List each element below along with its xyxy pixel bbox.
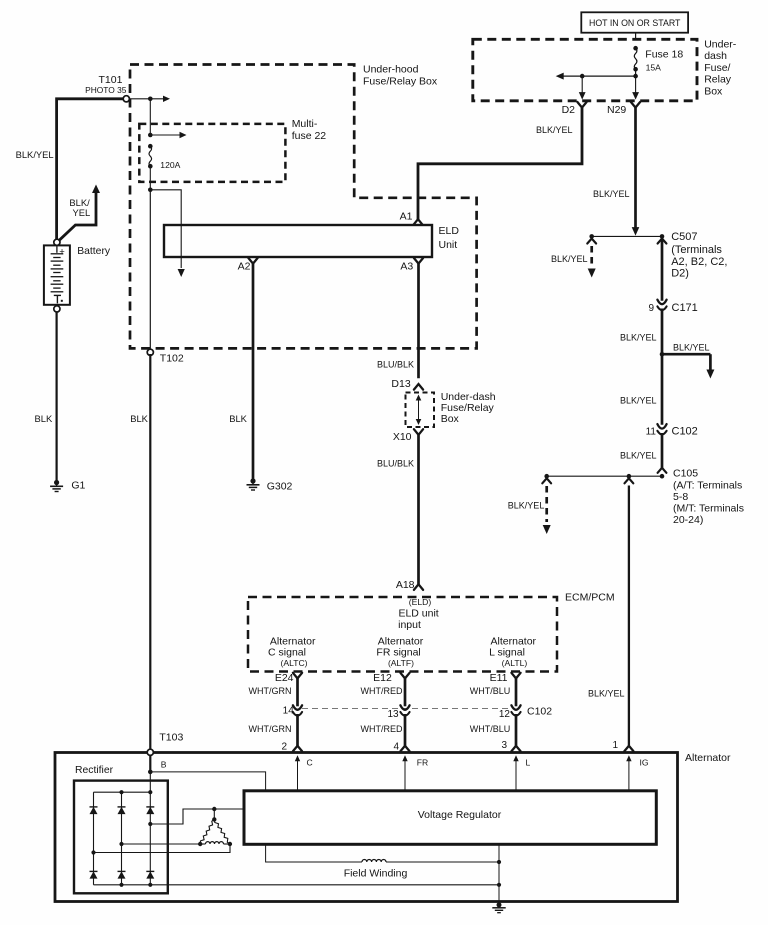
svg-text:Fuse 18: Fuse 18 — [645, 48, 683, 60]
svg-text:3: 3 — [501, 740, 507, 751]
svg-text:BLU/BLK: BLU/BLK — [377, 459, 414, 469]
svg-text:C105: C105 — [673, 468, 698, 480]
svg-text:A2, B2, C2,: A2, B2, C2, — [671, 256, 727, 268]
svg-text:BLK: BLK — [130, 413, 148, 424]
svg-text:1: 1 — [612, 740, 618, 751]
svg-text:FR: FR — [417, 758, 428, 768]
svg-text:11: 11 — [646, 427, 657, 438]
svg-text:BLK/YEL: BLK/YEL — [588, 689, 625, 699]
svg-text:N29: N29 — [607, 104, 626, 116]
svg-text:120A: 120A — [160, 160, 180, 170]
svg-text:A18: A18 — [396, 579, 415, 591]
svg-text:HOT IN ON OR START: HOT IN ON OR START — [589, 18, 681, 28]
svg-text:Box: Box — [441, 413, 460, 425]
svg-text:G302: G302 — [267, 481, 293, 493]
svg-text:13: 13 — [387, 709, 399, 720]
svg-text:T102: T102 — [160, 353, 184, 365]
svg-text:BLK/YEL: BLK/YEL — [620, 450, 657, 460]
svg-text:9: 9 — [648, 303, 654, 314]
svg-text:D2: D2 — [562, 104, 576, 116]
svg-text:15A: 15A — [646, 63, 662, 73]
svg-text:dash: dash — [704, 50, 727, 62]
svg-text:(ELD): (ELD) — [409, 597, 432, 607]
svg-text:BLU/BLK: BLU/BLK — [377, 360, 414, 370]
svg-text:ECM/PCM: ECM/PCM — [565, 592, 615, 604]
svg-text:(ALTL): (ALTL) — [502, 658, 528, 668]
svg-text:(ALTC): (ALTC) — [280, 658, 307, 668]
svg-text:(ALTF): (ALTF) — [388, 658, 414, 668]
svg-text:BLK: BLK — [35, 413, 53, 424]
svg-text:Multi-: Multi- — [292, 118, 318, 130]
svg-text:(Terminals: (Terminals — [671, 244, 722, 256]
svg-text:5-8: 5-8 — [673, 491, 688, 503]
svg-text:Voltage Regulator: Voltage Regulator — [418, 809, 502, 821]
svg-text:Fuse/Relay: Fuse/Relay — [441, 402, 495, 414]
svg-text:B: B — [161, 759, 167, 769]
svg-text:E12: E12 — [373, 672, 392, 684]
svg-text:Relay: Relay — [704, 74, 732, 86]
svg-text:BLK/YEL: BLK/YEL — [508, 501, 545, 511]
svg-text:(M/T: Terminals: (M/T: Terminals — [673, 502, 744, 514]
svg-text:WHT/BLU: WHT/BLU — [470, 724, 511, 734]
svg-text:Unit: Unit — [439, 239, 458, 251]
svg-text:ELD unit: ELD unit — [398, 608, 438, 620]
svg-text:BLK/YEL: BLK/YEL — [673, 343, 710, 353]
svg-text:Fuse/Relay Box: Fuse/Relay Box — [363, 75, 438, 87]
svg-text:BLK/YEL: BLK/YEL — [16, 149, 54, 160]
svg-text:C507: C507 — [671, 231, 697, 243]
svg-text:C signal: C signal — [268, 646, 306, 658]
svg-text:C171: C171 — [672, 302, 698, 314]
svg-text:2: 2 — [281, 741, 287, 752]
svg-text:X10: X10 — [393, 431, 412, 443]
svg-text:C102: C102 — [527, 706, 552, 718]
svg-text:Field Winding: Field Winding — [344, 867, 408, 879]
svg-text:E11: E11 — [490, 672, 508, 684]
svg-text:Battery: Battery — [77, 246, 111, 257]
svg-text:A2: A2 — [238, 261, 251, 273]
svg-text:WHT/BLU: WHT/BLU — [470, 686, 511, 696]
svg-text:input: input — [398, 619, 421, 631]
svg-text:+: + — [59, 246, 65, 257]
svg-text:WHT/RED: WHT/RED — [361, 724, 403, 734]
svg-text:Alternator: Alternator — [685, 752, 731, 764]
svg-text:C102: C102 — [672, 426, 698, 438]
svg-text:fuse 22: fuse 22 — [292, 130, 327, 142]
svg-text:BLK/YEL: BLK/YEL — [593, 189, 630, 199]
svg-text:Under-hood: Under-hood — [363, 63, 419, 75]
svg-text:(A/T: Terminals: (A/T: Terminals — [673, 479, 742, 491]
svg-text:Box: Box — [704, 86, 723, 98]
svg-text:E24: E24 — [275, 672, 294, 684]
svg-text:L signal: L signal — [489, 646, 525, 658]
svg-text:20-24): 20-24) — [673, 514, 703, 526]
svg-text:FR signal: FR signal — [376, 646, 420, 658]
svg-text:BLK: BLK — [229, 413, 247, 424]
svg-text:C: C — [307, 758, 313, 768]
svg-text:A1: A1 — [400, 211, 413, 223]
svg-text:WHT/GRN: WHT/GRN — [249, 686, 292, 696]
svg-text:BLK/YEL: BLK/YEL — [620, 395, 657, 405]
svg-text:14: 14 — [283, 706, 295, 717]
svg-text:Under-: Under- — [704, 38, 737, 50]
svg-text:Rectifier: Rectifier — [75, 765, 114, 776]
svg-text:BLK/YEL: BLK/YEL — [551, 254, 588, 264]
svg-text:4: 4 — [393, 741, 399, 752]
svg-text:A3: A3 — [400, 261, 413, 273]
svg-text:WHT/RED: WHT/RED — [361, 686, 403, 696]
svg-text:12: 12 — [499, 709, 511, 720]
svg-text:BLK/YEL: BLK/YEL — [536, 125, 573, 135]
svg-text:WHT/GRN: WHT/GRN — [249, 724, 292, 734]
svg-text:L: L — [526, 758, 531, 768]
svg-text:D13: D13 — [391, 378, 410, 390]
svg-text:Fuse/: Fuse/ — [704, 62, 730, 74]
svg-text:T103: T103 — [159, 732, 183, 744]
svg-text:YEL: YEL — [73, 207, 91, 218]
svg-text:PHOTO 35: PHOTO 35 — [85, 85, 127, 95]
svg-text:BLK/YEL: BLK/YEL — [620, 333, 657, 343]
svg-text:ELD: ELD — [439, 225, 460, 237]
svg-text:IG: IG — [640, 758, 649, 768]
svg-text:G1: G1 — [71, 480, 85, 492]
svg-text:D2): D2) — [671, 267, 689, 279]
